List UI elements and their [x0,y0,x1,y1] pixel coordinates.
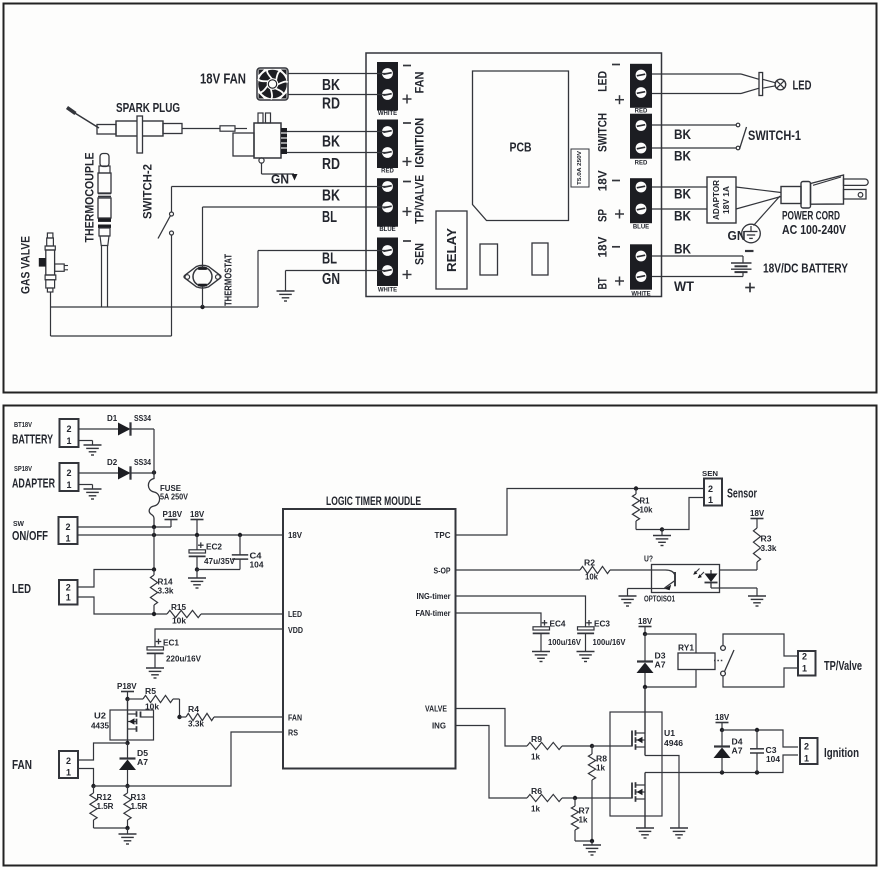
wire plug to GN earth [754,196,781,226]
wire opto LED cathode to ground [711,587,757,589]
svg-text:ADAPTER: ADAPTER [12,477,55,491]
svg-text:SS34: SS34 [134,458,151,467]
wire module VDD to EC1 [155,629,283,647]
connector J-LED (RED) [630,64,652,108]
opto phototransistor [652,569,666,571]
svg-text:R3: R3 [761,535,773,544]
wire 18V to C3 and pin2 [722,730,798,747]
opto light arrows [694,569,700,575]
svg-text:10k: 10k [585,573,599,582]
igniter box [233,133,254,156]
svg-text:100u/16V: 100u/16V [593,638,627,647]
wire ADAPTER pin1 to ground [79,484,93,486]
svg-text:AC 100-240V: AC 100-240V [782,222,846,237]
battery 18V/DC [742,256,744,263]
svg-text:1: 1 [66,593,71,603]
junction R6/R7 [573,796,577,800]
svg-text:RED: RED [635,108,648,114]
svg-text:Ignition: Ignition [824,746,859,760]
wire SEN BL riser [257,251,259,308]
resistor R3 3.3k [756,519,758,529]
svg-text:S-OP: S-OP [434,566,451,576]
svg-text:1: 1 [66,436,71,446]
svg-text:RED: RED [381,169,394,175]
svg-text:100u/16V: 100u/16V [548,638,582,647]
svg-text:1k: 1k [531,805,541,814]
svg-text:BK: BK [674,187,691,202]
svg-text:BLUE: BLUE [633,225,649,231]
svg-text:THERMOCOUPLE: THERMOCOUPLE [83,153,97,243]
capacitor EC2 47u/35V [196,535,198,550]
indicator LED lamp [741,74,759,79]
svg-text:R7: R7 [579,807,591,816]
svg-text:18V: 18V [596,170,610,191]
wire module TPC to sensor [456,489,705,536]
svg-text:2: 2 [66,424,71,434]
connector Ignition [800,738,818,764]
junction D5 anode [125,784,129,788]
svg-text:LED: LED [288,609,302,619]
svg-text:RD: RD [322,156,340,173]
svg-text:3.3k: 3.3k [761,544,778,553]
svg-text:BL: BL [322,209,337,226]
svg-text:BT: BT [596,277,610,289]
resistor R6 1k [527,794,562,801]
svg-text:47u/35V: 47u/35V [204,557,236,566]
svg-text:1.5R: 1.5R [97,802,114,811]
svg-text:OPTOISO1: OPTOISO1 [644,595,675,604]
wire thermostat upper stem [202,207,204,268]
flag 18V (rail) [191,519,204,521]
svg-text:D4: D4 [732,738,744,747]
svg-text:U2: U2 [94,712,107,721]
svg-text:18V: 18V [638,617,653,626]
svg-text:18V/DC BATTERY: 18V/DC BATTERY [763,262,849,276]
svg-text:1: 1 [66,768,71,778]
connector J-SP-18V (BLUE) [630,178,652,223]
ground (U1 source2) [636,827,654,829]
junction sensor ground [660,527,664,531]
svg-text:R5: R5 [145,687,157,696]
junction D1/D2 [152,470,156,474]
svg-text:3.3k: 3.3k [188,720,205,729]
junction R1 top [634,486,638,490]
svg-text:D5: D5 [137,749,149,758]
svg-text:BK: BK [674,209,691,224]
ground (battery) [84,444,102,446]
svg-text:POWER CORD: POWER CORD [782,211,840,223]
junction R9/R8 [590,744,594,748]
svg-text:EC3: EC3 [594,620,611,629]
capacitor EC3 100u/16V [586,622,592,624]
svg-text:1.5R: 1.5R [131,802,148,811]
resistor R8 1k [591,746,593,754]
wire common bus y307 [51,306,259,308]
connector J-SWITCH (RED) [630,114,652,159]
relay contacts [721,646,726,651]
svg-text:RY1: RY1 [678,643,694,653]
resistor R12 1.5R [93,786,95,793]
svg-text:ON/OFF: ON/OFF [12,529,48,543]
opto LED [710,570,712,574]
junction R5/R4/gate [177,715,181,719]
capacitor EC1 220u/16V [156,641,162,643]
svg-text:PCB: PCB [510,140,532,155]
svg-text:C3: C3 [766,746,778,755]
svg-text:SEN: SEN [413,243,427,265]
svg-text:SS34: SS34 [134,414,151,423]
svg-text:D2: D2 [107,458,118,467]
junction U2 drain / D5 [125,741,129,745]
svg-text:BK: BK [322,188,340,205]
wire BK J-SWITCH upper to switch-1 [652,124,736,126]
ground (EC2) [188,577,206,579]
svg-text:BATTERY: BATTERY [12,433,53,447]
adaptor 18V 1A [707,177,736,223]
ground (EC1) [146,667,164,669]
wire module S-OP to R2 [456,569,581,571]
wire R2 to optoisolator [610,569,652,571]
svg-text:WHITE: WHITE [378,288,397,294]
svg-text:RELAY: RELAY [444,228,459,272]
junction EC2 ground node [195,567,199,571]
svg-text:ADAPTOR: ADAPTOR [711,180,721,220]
wire LED pin2 up to R14 node [78,570,155,588]
svg-text:FAN: FAN [12,758,32,772]
svg-text:VALVE: VALVE [425,704,447,714]
connector J-FAN (WHITE) [377,62,398,111]
diode D3 A7 [644,634,646,662]
wire R6 to U1 gate2 [562,797,592,799]
svg-text:SW: SW [13,521,24,528]
svg-text:A7: A7 [137,758,149,767]
wire igniter BK to J-IGNITION [287,131,387,133]
svg-text:GN: GN [322,271,340,288]
wire R15 to module LED pin [201,613,283,615]
thermocouple capillary tubes [101,246,103,308]
svg-text:FAN-timer: FAN-timer [416,608,452,618]
connector Sensor [704,479,722,506]
svg-text:BK: BK [322,134,340,151]
junction P18V/R5 [125,697,129,701]
svg-text:4946: 4946 [664,739,684,748]
PCB capacitor block 2 [532,243,548,275]
wire BK J-SP upper to adaptor [652,186,707,188]
bottom panel border frame [4,406,877,866]
diode D4 A7 [721,730,723,747]
svg-text:BK: BK [674,149,691,164]
svg-text:2: 2 [804,742,809,752]
svg-text:R4: R4 [188,705,200,714]
wire R1 bottom to ground node [636,529,662,531]
svg-text:SWITCH-1: SWITCH-1 [748,128,801,143]
svg-text:BL: BL [322,251,337,268]
ground (opto output) [748,595,766,597]
svg-text:2: 2 [65,522,70,532]
svg-text:R9: R9 [531,735,543,744]
connector FAN [59,751,78,778]
wire 18V rail [78,534,284,536]
ground (gate dividers) [583,844,601,846]
wire BK switch-2 to J-TP/VALVE [172,186,388,188]
flag 18V (R3) [751,518,764,520]
transistor U1 4946 [610,712,662,816]
connector BATTERY [60,419,79,447]
wire module ING-timer to EC3 [456,596,586,627]
svg-text:1k: 1k [579,816,589,825]
wire switch-2 upper leg [171,187,173,213]
wire contact to TP/Valve pin1 [723,668,798,687]
U1 bottom MOSFET [644,773,646,786]
ground (opto input) [619,595,637,597]
svg-text:LED: LED [596,71,610,92]
ground (sensor return) [277,290,295,292]
power cord plug [781,187,801,204]
resistor R15 10k [167,610,201,617]
resistor R5 10k [128,698,144,700]
junction 18V relay [643,632,647,636]
wire J-LED lower to LED [652,93,741,95]
capacitor EC4 100u/16V [542,622,548,624]
svg-text:1: 1 [708,495,713,505]
wire ON/OFF pin2 P18V [78,526,172,528]
wire FAN pin1 down [78,769,94,787]
svg-text:GN: GN [271,172,289,187]
ground (U1 source1) [670,827,688,829]
svg-text:ING-timer: ING-timer [417,591,452,601]
svg-text:TP/Valve: TP/Valve [824,659,862,673]
svg-text:R13: R13 [131,793,147,802]
ground (EC4) [532,651,550,653]
svg-text:18V: 18V [715,713,730,722]
junction output C3 [755,770,759,774]
igniter GN ground lead [261,163,263,174]
wire sensor pin1 return [662,498,704,530]
svg-text:TP/VALVE: TP/VALVE [413,175,427,224]
connector J-TP/VALVE (BLUE) [377,178,398,227]
svg-text:2: 2 [66,583,71,593]
svg-text:D1: D1 [107,414,118,423]
svg-text:3.3k: 3.3k [158,587,175,596]
svg-text:R12: R12 [97,793,113,802]
svg-text:18V FAN: 18V FAN [200,72,246,88]
wire FAN pin2 to drain node [78,743,128,760]
svg-text:VDD: VDD [288,625,303,635]
svg-text:LED: LED [793,78,812,93]
svg-text:Sensor: Sensor [727,487,757,501]
relay on PCB [436,211,467,289]
wire opto anode to R3 [720,569,758,571]
flag P18V (sw) [165,519,178,521]
svg-text:SEN: SEN [702,469,718,478]
svg-text:R2: R2 [584,559,596,568]
wire C4 to ground node [197,569,240,571]
svg-text:IGNITION: IGNITION [413,118,427,168]
svg-text:220u/16V: 220u/16V [166,655,202,664]
wire BATTERY pin2 to D1 [79,428,119,430]
wire ignition output [645,755,798,773]
junction rail C4 [238,533,242,537]
junction C3 top [755,728,759,732]
svg-text:FAN: FAN [288,713,302,723]
svg-text:R8: R8 [596,755,608,764]
wire relay coil bottom [645,670,696,688]
wire D2 to node [132,472,155,474]
svg-text:SWITCH: SWITCH [596,113,610,152]
flag P18V (U2) [121,691,134,693]
wire adaptor to plug lower [736,197,781,210]
wire BK J-SWITCH lower to switch-1 [652,147,736,149]
svg-text:BT18V: BT18V [14,422,32,429]
wire BATTERY pin1 to ground [79,440,93,442]
svg-text:TPC: TPC [435,530,451,540]
svg-text:T5.0A 250V: T5.0A 250V [577,150,583,185]
wire module ING to R6 [456,726,528,799]
svg-text:ING: ING [432,721,446,731]
wire J-LED upper to LED [652,73,741,75]
svg-text:18V: 18V [750,509,765,518]
wire D1 to node P18V [132,428,155,430]
ground (fan return) [119,833,137,835]
svg-text:1: 1 [66,480,71,490]
resistor R14 3.3k [150,575,157,605]
wire BL to J-SEN [258,250,387,252]
wire fan RD to J-FAN [288,94,387,96]
svg-text:BLUE: BLUE [379,227,395,233]
PCB U-block [473,71,569,221]
diode D5 A7 [127,743,129,758]
svg-text:SWITCH-2: SWITCH-2 [141,164,155,219]
svg-text:1: 1 [804,754,809,764]
junction R14 top [152,567,156,571]
svg-text:D3: D3 [655,652,667,661]
svg-text:BK: BK [674,242,691,257]
svg-text:WHITE: WHITE [631,292,650,298]
wire BL thermostat to J-TP/VALVE [203,206,388,208]
wire relay coil top [645,634,696,653]
svg-text:104: 104 [250,561,265,570]
wire opto emitter to ground [628,588,652,590]
svg-text:LED: LED [12,582,31,596]
svg-text:SPARK PLUG: SPARK PLUG [116,100,180,115]
svg-text:BK: BK [674,127,691,142]
svg-text:1k: 1k [596,764,606,773]
junction fuse/sw [152,525,156,529]
svg-text:SP18V: SP18V [14,466,32,473]
switch-1 SW1 [736,123,740,127]
svg-text:P18V: P18V [117,682,137,691]
wire LED pin1 to R15 line [78,597,168,614]
wire adaptor to plug upper [736,187,781,193]
wire P18V drop to R14 [153,535,155,570]
fuse T5.0A 250V on PCB [571,149,589,187]
ground (EC3) [577,651,595,653]
svg-text:5A 250V: 5A 250V [160,493,189,502]
connector J-BT-18V (WHITE) [630,244,652,289]
junction R13 ground [125,826,129,830]
connector LED [59,580,78,605]
svg-text:EC4: EC4 [550,620,567,629]
svg-text:RS: RS [288,728,298,738]
wire RS sense line [94,732,284,786]
svg-text:BK: BK [322,77,340,94]
svg-text:R14: R14 [158,578,174,587]
svg-text:U1: U1 [664,729,676,738]
svg-text:P18V: P18V [163,510,183,519]
svg-text:18V: 18V [190,510,205,519]
svg-text:1: 1 [65,534,70,544]
junction R15 node [152,612,156,616]
junction fan return [91,784,95,788]
svg-text:1k: 1k [531,753,541,762]
flag 18V (ignition) [716,722,729,724]
resistor R4 3.3k [180,716,187,718]
svg-text:18V: 18V [288,530,302,540]
junction gate divider ground [590,839,594,843]
svg-text:FAN: FAN [413,72,427,94]
svg-text:2: 2 [66,468,71,478]
svg-text:2: 2 [708,484,713,494]
PCB capacitor block 1 [480,244,498,275]
wire module FAN-timer to EC4 [456,613,542,627]
svg-text:WT: WT [674,279,695,294]
resistor R7 1k [574,798,576,806]
junction output D4 [720,770,724,774]
svg-text:R6: R6 [531,787,543,796]
flag 18V (relay) [639,626,652,628]
junction D3 anode [643,685,647,689]
svg-text:4435: 4435 [91,722,110,731]
capacitor C4 104 [239,535,241,555]
wire WT J-BT lower to battery [652,276,743,278]
junction rail x154 [152,533,156,537]
connector TP/Valve [798,651,816,676]
resistor R1 10k [635,489,637,495]
svg-text:LOGIC TIMER MOUDLE: LOGIC TIMER MOUDLE [326,494,421,508]
junction thermostat bus [200,305,204,309]
svg-text:A7: A7 [655,661,667,670]
svg-text:2: 2 [802,652,807,662]
wire ADAPTER pin2 to D2 [79,472,119,474]
connector ADAPTER [60,463,79,491]
wire R4 to module FAN pin [214,716,283,718]
fuse F1 5A 250V [148,470,159,527]
svg-text:C4: C4 [250,552,263,561]
svg-text:2: 2 [66,756,71,766]
top panel border frame [4,4,877,393]
svg-text:RD: RD [322,96,340,113]
svg-text:18V: 18V [596,237,610,258]
wire gas valve loop bottom [51,335,172,337]
svg-text:A7: A7 [732,747,744,756]
wire R12 bottom to R13 bottom [94,827,128,829]
wire contact to TP/Valve pin2 [723,634,798,656]
wire module VALVE to R9 [456,709,528,747]
svg-text:104: 104 [766,755,781,764]
wire GN to J-SEN [286,270,388,272]
wire R5 to R4 node [179,699,181,717]
PCB board outline [366,53,662,297]
svg-text:10k: 10k [640,506,654,515]
svg-text:EC1: EC1 [163,639,180,648]
svg-text:SP: SP [596,209,610,222]
wire R9 to U1 gate1 [562,745,592,747]
svg-text:GAS VALVE: GAS VALVE [19,236,33,294]
U1 top MOSFET [644,687,646,733]
wire BK J-BT upper to battery [652,255,743,257]
wire igniter RD to J-IGNITION [287,152,387,154]
wire thermostat lower stem [202,286,204,307]
